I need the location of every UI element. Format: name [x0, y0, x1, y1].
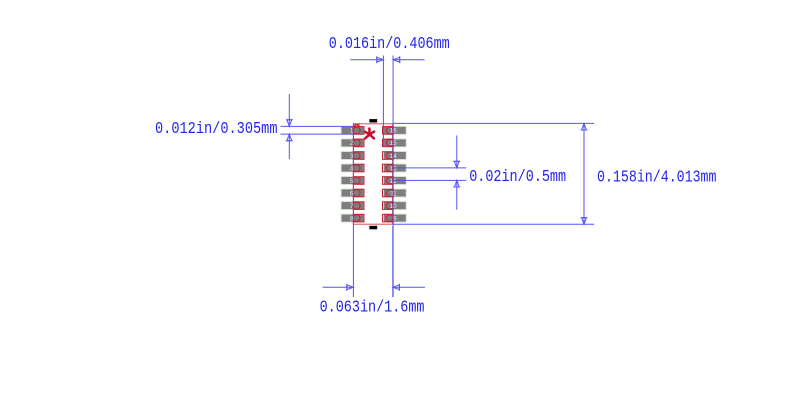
pin number 1 — [350, 129, 354, 135]
svg-text:0.012in/0.305mm: 0.012in/0.305mm — [155, 120, 278, 139]
dimension arrow line: pitch upper — [453, 135, 460, 168]
lead 9 — [383, 214, 394, 222]
pad 12 — [384, 177, 406, 184]
pad 8 — [342, 215, 364, 222]
lead 7 — [353, 202, 364, 210]
svg-text:11: 11 — [390, 191, 397, 197]
pin number 14 — [390, 154, 397, 160]
pad 4 — [342, 165, 364, 172]
pin-1 asterisk marker — [365, 129, 374, 139]
lead 15 — [383, 139, 394, 147]
lead 13 — [383, 164, 394, 172]
svg-text:0.158in/4.013mm: 0.158in/4.013mm — [597, 169, 717, 188]
pin number 10 — [390, 204, 397, 210]
dimension text 0.158in/4.013mm — [597, 169, 717, 188]
pad 13 — [384, 165, 406, 172]
pad 7 — [342, 202, 364, 209]
pin number 3 — [350, 154, 354, 160]
dimension text 0.02in/0.5mm — [469, 168, 566, 187]
pad 5 — [342, 177, 364, 184]
lead 8 — [353, 214, 364, 222]
dimension arrow line: bottom left tail — [323, 284, 354, 291]
lead 11 — [383, 189, 394, 197]
dimension: pad height extension line bottom — [280, 133, 353, 135]
dimension: body width extension line right — [392, 226, 394, 297]
pad 11 — [384, 190, 406, 197]
dimension: pitch extension line lower — [393, 179, 466, 181]
pin number 6 — [350, 191, 354, 197]
dimension: lead width extension line left — [382, 56, 384, 148]
pin number 7 — [350, 204, 354, 210]
svg-text:0.02in/0.5mm: 0.02in/0.5mm — [469, 168, 566, 187]
lead 5 — [353, 177, 364, 185]
pin number 8 — [350, 216, 354, 222]
lead 3 — [353, 152, 364, 160]
dimension arrow line: top left tail — [350, 56, 383, 63]
dimension text 0.063in/1.6mm — [320, 299, 425, 318]
pin number 15 — [390, 141, 397, 147]
dimension: span extension line bottom — [393, 223, 594, 225]
pad 1 — [342, 127, 364, 134]
pin number 16 — [390, 129, 397, 135]
dimension: span extension line top — [393, 122, 594, 124]
svg-text:0.016in/0.406mm: 0.016in/0.406mm — [329, 35, 450, 54]
pin number 9 — [393, 216, 397, 222]
lead 12 — [383, 177, 394, 185]
pad 6 — [342, 190, 364, 197]
pad 10 — [384, 202, 406, 209]
component body outline U1 — [353, 124, 392, 224]
dimension arrow line: top right tail — [393, 56, 425, 63]
dimension arrow line: span vertical — [581, 123, 588, 224]
lead 2 — [353, 139, 364, 147]
dimension: body width extension line left — [352, 124, 354, 297]
pad 16 — [384, 127, 406, 134]
lead 4 — [353, 164, 364, 172]
pin number 12 — [390, 179, 397, 185]
pad 2 — [342, 139, 364, 146]
lead 10 — [383, 202, 394, 210]
pin number 5 — [350, 179, 354, 185]
dimension: pad height extension line top — [280, 125, 353, 127]
lead 14 — [383, 152, 394, 160]
dimension arrow line: pad height lower — [286, 134, 293, 159]
pad 3 — [342, 152, 364, 159]
svg-text:0.063in/1.6mm: 0.063in/1.6mm — [320, 299, 425, 318]
pin-1 corner x marker — [354, 124, 361, 127]
top orientation mark — [369, 119, 377, 122]
pin number 2 — [350, 141, 354, 147]
pad 9 — [384, 215, 406, 222]
dimension text 0.012in/0.305mm — [155, 120, 278, 139]
bottom orientation mark — [369, 226, 377, 230]
dimension: pitch extension line upper — [393, 167, 466, 169]
lead 6 — [353, 189, 364, 197]
pin number 13 — [390, 166, 397, 172]
lead 16 — [383, 127, 394, 135]
pin number 4 — [350, 166, 354, 172]
dimension arrow line: bottom right tail — [393, 284, 425, 291]
dimension arrow line: pad height upper — [286, 94, 293, 126]
dimension: lead width extension line right — [392, 56, 394, 298]
pin number 11 — [390, 191, 397, 197]
pad 15 — [384, 139, 406, 146]
lead 1 — [353, 127, 364, 135]
dimension text 0.016in/0.406mm — [329, 35, 450, 54]
pad 14 — [384, 152, 406, 159]
dimension arrow line: pitch lower — [453, 180, 460, 209]
